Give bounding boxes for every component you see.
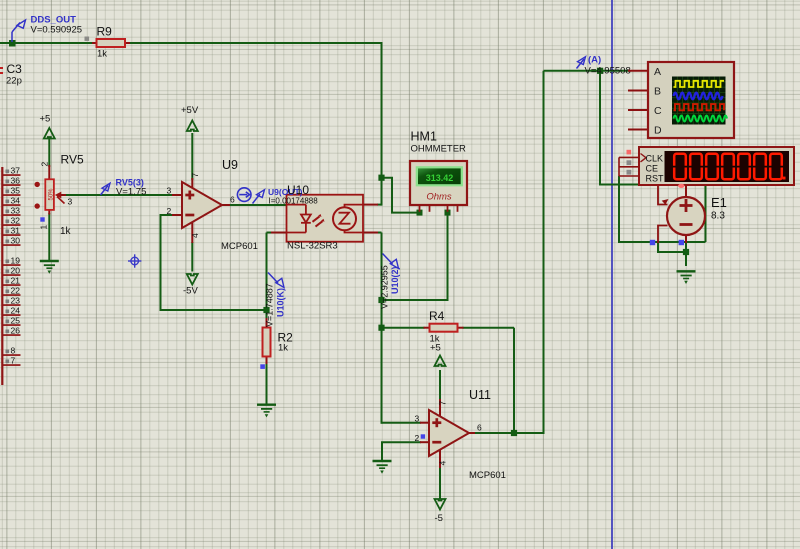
power -5V arrow below U9 [187,274,198,285]
potentiometer RV5 [39,153,84,238]
svg-text:25: 25 [11,316,21,326]
svg-text:-5: -5 [435,513,443,524]
svg-text:22p: 22p [6,76,22,87]
svg-text:V=1.75: V=1.75 [116,187,146,198]
svg-text:36: 36 [11,176,21,186]
svg-text:V=4.95508: V=4.95508 [585,66,631,77]
ground below E1 [677,271,696,284]
op-amp U9 [167,158,258,252]
resistor R9 [92,25,130,60]
svg-text:1: 1 [39,225,49,230]
svg-text:21: 21 [11,276,21,286]
voltage probe U9(OUT) arrow [253,187,319,206]
svg-text:32: 32 [11,216,21,226]
svg-text:RST: RST [646,173,665,183]
probe U10(K) [265,273,286,328]
resistor R2 [263,318,294,364]
svg-text:35: 35 [11,186,21,196]
svg-text:313.42: 313.42 [426,173,454,183]
probe (A) [577,55,631,77]
probe U10(2) [380,254,401,310]
wire U9 -5V stem [191,242,193,272]
svg-text:1k: 1k [430,334,440,345]
svg-text:B: B [654,86,661,98]
wire R4 row [382,328,515,433]
svg-text:33: 33 [11,206,21,216]
svg-text:V=0.590925: V=0.590925 [31,25,83,36]
svg-text:23: 23 [11,296,21,306]
power +5 arrow above RV5 [44,128,55,139]
wire jog junction to HM1 pin1 [382,178,420,213]
svg-text:-5V: -5V [183,286,198,297]
ground below R2 [257,405,276,418]
wire RV5 pin1 to ground [48,213,50,261]
voltage source E1 [658,185,727,243]
oscilloscope [628,62,734,138]
svg-text:37: 37 [11,166,21,176]
svg-text:MCP601: MCP601 [469,470,506,481]
svg-text:7: 7 [438,401,448,406]
svg-text:E1: E1 [711,195,727,210]
wire E1 bottom jog and ground drop [658,242,686,266]
svg-text:V=1.74887: V=1.74887 [265,283,275,327]
svg-text:26: 26 [11,326,21,336]
wire U11 +5 stem [439,370,441,400]
svg-text:22: 22 [11,286,21,296]
wire vertical x381 top to U10 pin1 [377,42,382,206]
svg-text:R4: R4 [429,309,445,323]
wire 7seg left down to E1 bottom row [619,176,706,242]
wire U11 pin2 to ground [382,442,421,460]
svg-text:4: 4 [190,233,200,238]
ohmmeter HM1 [410,130,467,212]
svg-text:6: 6 [477,423,482,433]
wire U11 -5 stem [439,467,441,500]
marker blue square below R2 top [260,364,265,369]
RV5 pin1 blue square [40,217,44,221]
wire HM1 pin2 down and left [382,211,448,300]
svg-text:(A): (A) [588,55,601,66]
svg-text:Ohms: Ohms [426,192,452,203]
svg-text:1k: 1k [278,343,288,354]
svg-text:19: 19 [11,256,21,266]
svg-text:OHMMETER: OHMMETER [411,144,467,155]
svg-text:U10: U10 [287,183,309,197]
wire U9 output to U10 [229,204,287,206]
power +5V arrow above U9 [187,121,198,132]
svg-text:I=0.00174888: I=0.00174888 [269,197,319,206]
wire RV5 pin2 power stem [48,137,50,167]
svg-text:2: 2 [40,162,50,167]
wire 7seg pin3 down [705,185,707,242]
ground below U11 pin2 [373,461,392,474]
probe DDS_OUT [12,15,82,43]
connector chip edge with pins [1,166,20,386]
wire U9 pin2 feedback loop [161,215,267,310]
svg-text:C3: C3 [7,62,23,76]
wire long vertical to probe A [543,71,545,434]
7seg pin marker squares [627,150,632,155]
svg-text:CE: CE [646,163,659,173]
origin marker crosshair [128,254,141,267]
svg-text:8.3: 8.3 [711,211,725,222]
svg-text:MCP601: MCP601 [221,241,258,252]
svg-text:+5: +5 [40,114,51,125]
svg-text:U11: U11 [469,388,491,402]
junction node dots [9,40,689,436]
svg-text:R9: R9 [97,25,113,39]
svg-text:2: 2 [167,206,172,216]
resistor R4 [424,309,464,345]
svg-text:A: A [654,66,661,78]
wire U10 cathode down to R2 [267,233,272,405]
svg-text:U10(2): U10(2) [390,266,400,294]
svg-text:C: C [654,105,662,117]
svg-text:D: D [654,125,662,137]
svg-text:34: 34 [11,196,21,206]
E1 pink pin dot [678,184,684,188]
sheet border line [611,0,613,549]
wire from A-row down to 7seg RST [600,71,639,185]
svg-text:8: 8 [11,346,16,356]
svg-text:7: 7 [11,356,16,366]
svg-text:50%: 50% [49,188,55,201]
svg-text:3: 3 [415,414,420,424]
svg-text:31: 31 [11,226,21,236]
wire top horizontal DDS_OUT to R9 to corner [0,42,382,44]
svg-text:24: 24 [11,306,21,316]
svg-text:CLK: CLK [646,153,664,163]
svg-text:+5V: +5V [181,105,199,116]
7-segment display module [619,147,794,185]
svg-text:NSL-32SR3: NSL-32SR3 [287,241,338,252]
svg-text:4: 4 [438,461,448,466]
capacitor C3 (edge) [0,62,22,87]
svg-text:3: 3 [68,197,73,207]
E1 bottom blue squares [650,240,655,245]
power +5 arrow above U11 [435,356,446,367]
wire U11 pin3 left [382,422,422,424]
wire probe A row to scope [544,70,631,72]
op-amp U11 [415,388,506,481]
current probe U9(OUT) [237,188,251,202]
wire U11 output row [475,432,544,434]
svg-text:V=2.92955: V=2.92955 [380,265,390,309]
opto-coupler U10 NSL-32SR3 [271,195,378,252]
svg-text:2: 2 [415,433,420,443]
wire U9 +5V stem [191,133,193,180]
svg-text:20: 20 [11,266,21,276]
svg-text:30: 30 [11,236,21,246]
svg-text:1k: 1k [60,226,72,237]
svg-text:U10(K): U10(K) [276,288,286,317]
marker blue square U11 pin2 [421,434,425,438]
svg-text:3: 3 [167,186,172,196]
svg-text:RV5: RV5 [61,153,84,167]
svg-text:U9: U9 [222,158,238,172]
RV5 terminal dots [35,182,40,187]
wire RV5 wiper to U9 pin3 [60,194,173,196]
power -5 arrow below U11 [435,499,446,510]
probe RV5(3) [101,178,147,198]
svg-text:6: 6 [230,195,235,205]
svg-text:HM1: HM1 [411,130,437,144]
marker grey square near R9 [85,37,90,41]
wire vertical x381 U10 pin2 down to U11 pin3 [377,233,382,424]
svg-text:7: 7 [190,173,200,178]
ground below RV5 [40,261,59,274]
svg-text:1k: 1k [97,49,107,60]
